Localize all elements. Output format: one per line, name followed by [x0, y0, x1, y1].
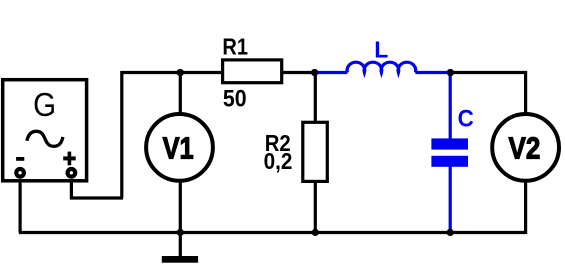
svg-text:0,2: 0,2 [264, 148, 293, 174]
wire R2 bottom [314, 180, 317, 233]
wire V1 top [179, 73, 182, 117]
node dot top V1 [177, 69, 184, 76]
node dot top C [447, 69, 454, 76]
minus label [16, 157, 24, 161]
node dot bottom ground [177, 229, 184, 236]
wire blue C top lead [449, 73, 452, 140]
svg-text:L: L [374, 37, 388, 63]
wire V2 bottom [524, 180, 527, 234]
wire L right node to V2 top [450, 73, 525, 117]
svg-text:R1: R1 [222, 33, 248, 60]
voltmeter V2 [492, 114, 559, 181]
node dot top R2 [311, 69, 318, 76]
ground bar [162, 256, 198, 263]
ground stem [179, 233, 182, 257]
wire blue C bottom lead [449, 166, 452, 231]
svg-text:V2: V2 [509, 131, 541, 166]
svg-text:V1: V1 [163, 131, 194, 166]
capacitor C top plate [431, 138, 468, 149]
resistor R1 [223, 60, 282, 83]
node dot bottom R2 [312, 229, 319, 236]
capacitor C bottom plate [431, 156, 468, 167]
inductor L [347, 62, 416, 72]
wire - terminal drop [19, 176, 22, 233]
wire blue L left lead [315, 71, 348, 74]
sine symbol [27, 131, 63, 146]
resistor R2 [303, 122, 328, 181]
wire + terminal jog [71, 176, 123, 198]
plus label [63, 156, 75, 160]
svg-text:G: G [33, 87, 56, 124]
voltmeter V1 [146, 114, 213, 181]
wire R2 top [314, 73, 317, 125]
wire bottom rail [19, 231, 526, 234]
svg-text:C: C [458, 105, 474, 132]
svg-text:50: 50 [223, 84, 247, 112]
terminal - [16, 169, 24, 177]
generator G box [3, 80, 87, 181]
wire top row: corner to R2 node [122, 73, 315, 199]
wire V1 bottom [179, 180, 182, 233]
terminal + [68, 169, 76, 177]
node dot bottom C [447, 229, 454, 236]
wire blue L right lead [415, 71, 450, 74]
